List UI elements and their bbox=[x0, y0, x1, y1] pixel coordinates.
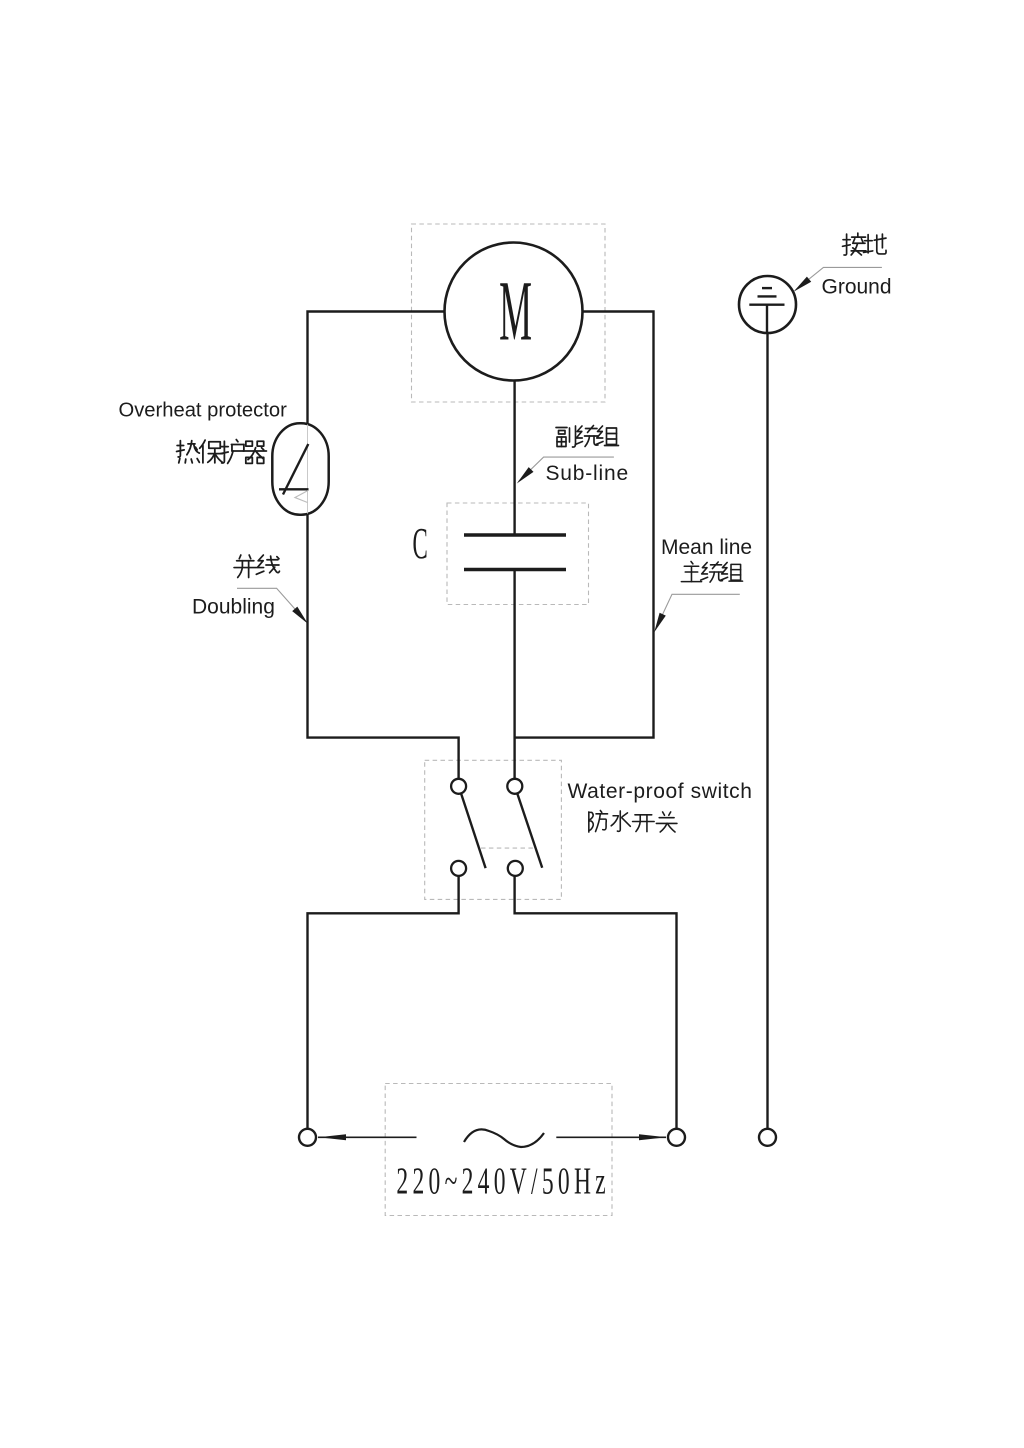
svg-text:Overheat protector: Overheat protector bbox=[119, 400, 288, 422]
terminal N bbox=[668, 1129, 685, 1146]
label fangshuikaiguan (waterproof switch) bbox=[589, 810, 677, 832]
wire: motor right, mean line down, to switch right pole bbox=[515, 312, 654, 738]
AC arrow left bbox=[318, 1134, 417, 1140]
svg-text:Doubling: Doubling bbox=[192, 596, 275, 619]
svg-text:C: C bbox=[413, 519, 428, 568]
capacitor C bbox=[464, 535, 566, 570]
svg-text:M: M bbox=[499, 264, 532, 359]
leader: mean line bbox=[654, 594, 740, 632]
terminal L bbox=[299, 1129, 316, 1146]
motor M bbox=[445, 243, 583, 381]
wire: switch right pole to right terminal bbox=[515, 876, 677, 1129]
leader: doubling bbox=[237, 588, 308, 624]
svg-text:220~240V/50Hz: 220~240V/50Hz bbox=[396, 1160, 610, 1202]
wire: doubling branch down and into switch left pole bbox=[308, 513, 459, 779]
svg-text:Mean line: Mean line bbox=[661, 536, 752, 559]
switch enclosure divider bbox=[481, 847, 534, 849]
switch blade right bbox=[517, 793, 542, 868]
terminal ground bbox=[759, 1129, 776, 1146]
AC source dashed enclosure bbox=[385, 1084, 612, 1216]
waterproof switch poles bbox=[451, 779, 523, 876]
wire: motor bottom to capacitor top plate bbox=[513, 381, 515, 535]
label rebaohuqi (thermal protector) bbox=[177, 440, 267, 464]
leader: ground label bbox=[794, 267, 882, 291]
label bingxian (doubling) bbox=[234, 555, 279, 577]
wire: switch left pole to left terminal bbox=[308, 876, 459, 1129]
wire: motor left to doubling branch top bbox=[308, 312, 445, 426]
AC arrow right bbox=[556, 1134, 666, 1140]
svg-text:Ground: Ground bbox=[822, 276, 892, 299]
wire: ground drop bbox=[766, 333, 768, 1129]
leader: sub-line bbox=[517, 457, 614, 483]
waterproof switch dashed enclosure bbox=[425, 760, 562, 899]
wire: faint segment through protector bbox=[307, 426, 309, 513]
AC sine wave bbox=[464, 1129, 544, 1147]
switch blade left bbox=[461, 793, 486, 868]
svg-text:Sub-line: Sub-line bbox=[546, 462, 629, 485]
overheat protector (thermal cutout) bbox=[272, 423, 328, 515]
label furaozu (sub winding) bbox=[556, 426, 619, 448]
label jiedi (ground) bbox=[843, 233, 887, 255]
wire: capacitor bottom plate to switch right pole bbox=[513, 570, 515, 779]
motor dashed enclosure bbox=[412, 224, 606, 402]
svg-text:Water-proof switch: Water-proof switch bbox=[568, 780, 753, 803]
ground symbol bbox=[739, 276, 796, 333]
label zhuraozu (main winding) bbox=[681, 561, 742, 582]
capacitor dashed enclosure bbox=[447, 503, 589, 605]
